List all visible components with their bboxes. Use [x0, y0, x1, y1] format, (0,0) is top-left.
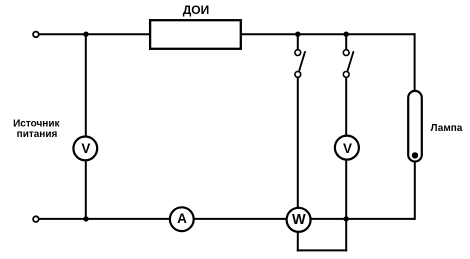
terminal top-left — [33, 32, 39, 38]
wire switch S2 lower lead through V2 to loop bottom — [345, 77, 347, 251]
svg-text:Лампа: Лампа — [431, 123, 463, 134]
wire switch S2 upper lead — [345, 34, 347, 50]
voltmeter V1 — [73, 137, 97, 161]
svg-text:A: A — [177, 211, 187, 226]
voltmeter V2 — [335, 136, 359, 160]
junction top S2 node — [344, 32, 349, 37]
junction top S1 node — [295, 32, 300, 37]
switch S2 — [343, 50, 353, 78]
wire lamp bottom drop — [414, 160, 416, 220]
ammeter A1 — [170, 207, 194, 231]
svg-text:V: V — [81, 141, 90, 156]
label ДОИ — [183, 3, 210, 17]
wire W bottom lead — [297, 219, 299, 252]
svg-text:W: W — [292, 212, 306, 228]
terminal bottom-left — [33, 216, 39, 222]
lamp EL1 — [408, 91, 422, 162]
svg-text:питания: питания — [17, 129, 58, 140]
wattmeter W1 — [287, 208, 311, 232]
junction top-left node — [83, 32, 88, 37]
junction bottom S2 node — [344, 216, 349, 221]
wire left branch vertical (through V1) — [85, 34, 87, 219]
wire right drop to lamp — [414, 33, 416, 91]
wire switch S1 lower lead to W — [297, 77, 299, 218]
svg-text:V: V — [343, 141, 352, 156]
wire switch S1 upper lead — [297, 34, 299, 50]
wire W voltage-coil bottom link — [297, 249, 347, 251]
svg-text:ДОИ: ДОИ — [183, 3, 210, 17]
wire bottom bus — [39, 218, 415, 220]
wire top bus — [39, 33, 415, 35]
junction bottom-left node — [83, 216, 88, 221]
label Источник питания — [13, 118, 60, 140]
switch S1 — [295, 50, 305, 78]
resistor box ДОИ — [150, 20, 241, 49]
svg-text:Источник: Источник — [13, 118, 60, 129]
label Лампа — [431, 123, 463, 134]
